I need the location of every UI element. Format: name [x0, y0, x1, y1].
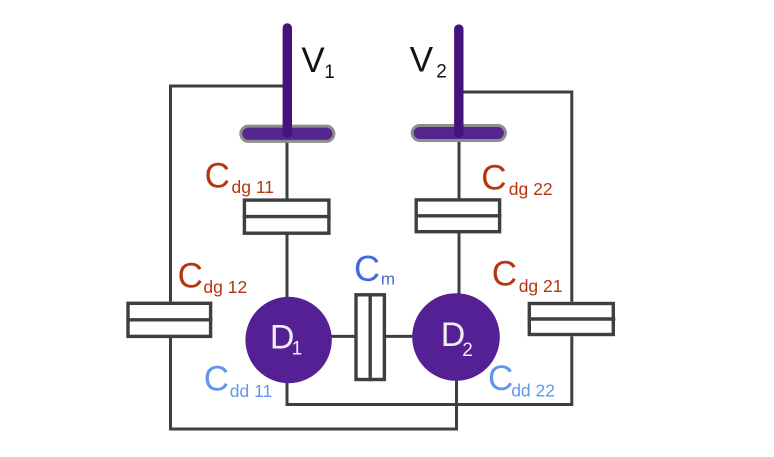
svg-text:C: C — [354, 248, 380, 289]
dot D2 — [412, 293, 500, 381]
label Cdg12 — [178, 257, 248, 298]
electrode V2 (vertical lead) — [454, 29, 463, 133]
svg-text:dd 22: dd 22 — [511, 380, 555, 400]
label V1 — [301, 41, 334, 83]
label Cdg22 — [481, 158, 552, 199]
svg-text:C: C — [492, 255, 517, 294]
capacitor Cdg12 body — [126, 303, 212, 336]
capacitor Cdg22 body — [415, 200, 502, 232]
svg-text:dg 11: dg 11 — [232, 177, 275, 197]
svg-text:m: m — [381, 270, 395, 289]
wire: gate V1 stem to left outer rail, down to Cdg12 top — [171, 86, 288, 302]
label Cm — [354, 248, 395, 289]
wire: gate G1 bottom to Cdg11 top — [286, 141, 289, 200]
capacitor Cdg11 body — [243, 200, 331, 233]
svg-text:dg 12: dg 12 — [203, 277, 247, 297]
label Cdg11 — [205, 157, 274, 198]
label D1 — [270, 319, 302, 360]
svg-text:dg 22: dg 22 — [509, 179, 553, 199]
wire: gate V2 stem to right outer rail, down to Cdg21 top — [459, 92, 572, 302]
dot D1 — [245, 297, 331, 383]
svg-text:C: C — [488, 359, 513, 398]
gate G1 (rounded plunger gate under V1) — [241, 126, 334, 141]
wire: gate G2 bottom to Cdg22 top — [458, 141, 461, 200]
gate G2 (rounded plunger gate under V2) — [412, 126, 505, 141]
svg-text:V: V — [410, 41, 434, 80]
svg-text:V: V — [301, 41, 325, 80]
svg-text:2: 2 — [462, 340, 473, 361]
electrode V1 (vertical lead) — [283, 28, 292, 133]
label V2 — [410, 41, 447, 83]
wire: dot D2 bottom down, lower rail 2, up to Cdg12 bottom — [171, 338, 457, 429]
wire: Cdg22 bottom to dot D2 — [458, 232, 461, 296]
svg-text:C: C — [178, 257, 203, 296]
svg-text:dd 11: dd 11 — [230, 381, 272, 401]
svg-text:C: C — [204, 360, 229, 399]
capacitor Cm body (vertical plates) — [356, 293, 384, 381]
svg-text:1: 1 — [324, 62, 335, 83]
wire: Cdg21 bottom down, lower rail 1, up to dot D1 bottom — [287, 336, 572, 404]
svg-text:dg 21: dg 21 — [519, 276, 563, 296]
label Cdd11 — [204, 360, 273, 401]
svg-text:C: C — [481, 158, 506, 197]
wire: Cdg11 bottom to dot D1 — [286, 233, 289, 300]
svg-text:1: 1 — [292, 338, 303, 359]
label Cdg21 — [492, 255, 563, 296]
wire: dot D1 to Cm left plate — [330, 335, 355, 338]
svg-text:C: C — [205, 157, 230, 196]
label Cdd22 — [488, 359, 555, 400]
wire: Cm right plate to dot D2 — [386, 335, 414, 338]
label D2 — [441, 316, 473, 361]
capacitor Cdg21 body — [528, 304, 616, 335]
svg-text:2: 2 — [436, 62, 447, 83]
